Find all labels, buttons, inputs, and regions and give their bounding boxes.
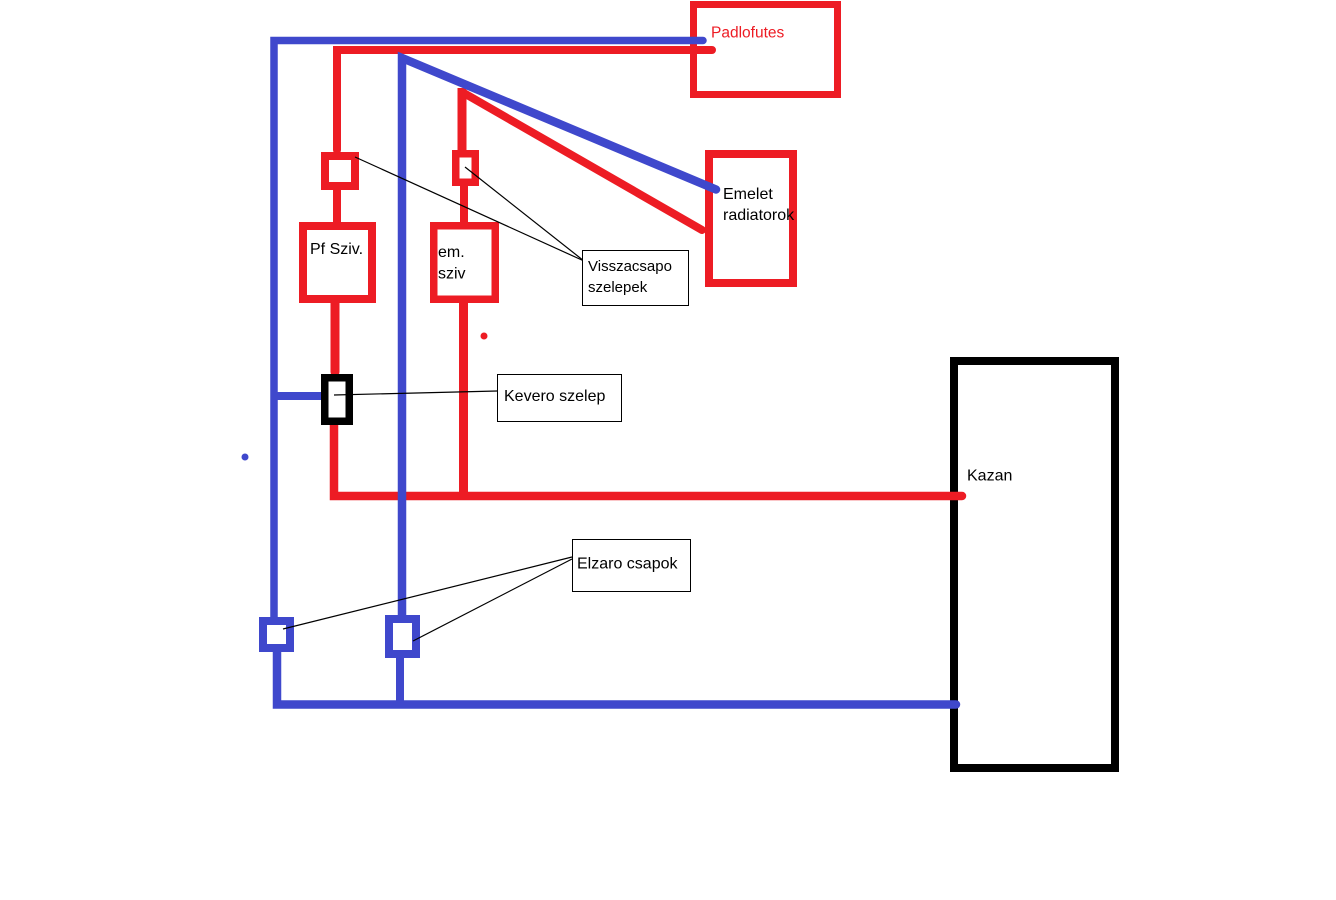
svg-text:radiatorok: radiatorok xyxy=(723,207,795,224)
svg-text:Emelet: Emelet xyxy=(723,186,773,203)
svg-text:em.: em. xyxy=(438,244,465,261)
svg-text:Padlofutes: Padlofutes xyxy=(711,25,784,42)
svg-text:szelepek: szelepek xyxy=(588,279,648,296)
svg-text:Elzaro csapok: Elzaro csapok xyxy=(577,556,678,573)
svg-text:Kazan: Kazan xyxy=(967,468,1012,485)
svg-text:Pf Sziv.: Pf Sziv. xyxy=(310,241,363,258)
svg-text:sziv: sziv xyxy=(438,266,466,283)
svg-text:Kevero szelep: Kevero szelep xyxy=(504,388,605,405)
svg-text:Visszacsapo: Visszacsapo xyxy=(588,258,672,275)
